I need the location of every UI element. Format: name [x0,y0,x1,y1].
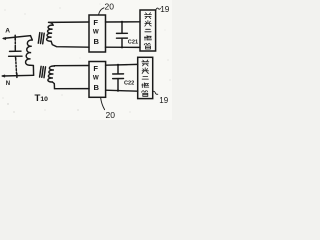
node A label [5,28,10,35]
transformer secondary winding upper [47,25,54,41]
svg-text:A: A [5,28,10,35]
node junction on N-line [16,74,18,78]
node dot [117,64,119,66]
full-wave bridge U-bottom (FWB) box [89,62,106,98]
transformer core lower [40,66,42,77]
capacitor C22 [117,65,119,74]
svg-text:19: 19 [159,96,168,105]
transformer secondary winding lower [48,66,55,82]
wire secondary lower top terminal [54,65,89,68]
callout 19 (upper) tilde leader [156,8,161,11]
svg-text:B: B [94,37,100,46]
svg-text:C21: C21 [128,40,138,46]
node N label [6,81,10,87]
capacitor C21 [121,22,123,33]
svg-text:20: 20 [106,110,116,120]
node junction on A-line [14,35,16,39]
vertical label LED lower (発光二極管) drawn strokes [142,60,149,96]
node dot [121,46,123,48]
svg-text:19: 19 [160,4,170,14]
wire neutral N horizontal [2,74,33,77]
svg-text:B: B [94,83,100,92]
value label C21 [128,40,138,46]
wire primary to N [32,66,34,76]
svg-text:C22: C22 [124,81,134,87]
wire rail bottom-right lower [106,90,138,91]
wire rail top-right upper [106,21,141,23]
wire dashed branch upper [14,39,16,48]
transformer T10 primary winding [26,40,34,66]
full-wave bridge U-top (FWB) box [89,15,106,52]
wire rail top-right lower [106,46,141,48]
svg-text:N: N [6,81,10,87]
svg-text:F: F [93,64,98,73]
transformer T10 label [35,93,49,104]
wire secondary upper bottom terminal [51,41,89,47]
callout 20 (top FWB) [99,8,104,15]
transformer core upper [38,33,40,44]
wire dashed branch lower [15,59,18,75]
callout 20 (bottom FWB) [101,98,105,110]
vertical label LED upper (発光二極管) drawn strokes [144,13,151,49]
svg-text:F: F [93,18,98,27]
wire rail bottom-right upper [106,63,138,66]
callout 19 (lower) tilde leader [153,91,158,94]
wire A-line arrow end [3,37,6,40]
wire phase A horizontal [4,36,33,40]
svg-text:W: W [93,75,99,82]
LED load box lower [138,57,153,98]
svg-text:20: 20 [105,2,115,12]
LED load box upper [140,10,156,51]
node dot [121,21,123,23]
node dot [117,90,119,92]
svg-text:10: 10 [40,96,48,103]
wire secondary lower bottom terminal [52,82,89,89]
value label C22 [124,81,134,87]
wire secondary upper top terminal [49,22,90,25]
capacitor C (mains, dashed branch) [14,47,16,51]
svg-text:W: W [93,29,99,36]
